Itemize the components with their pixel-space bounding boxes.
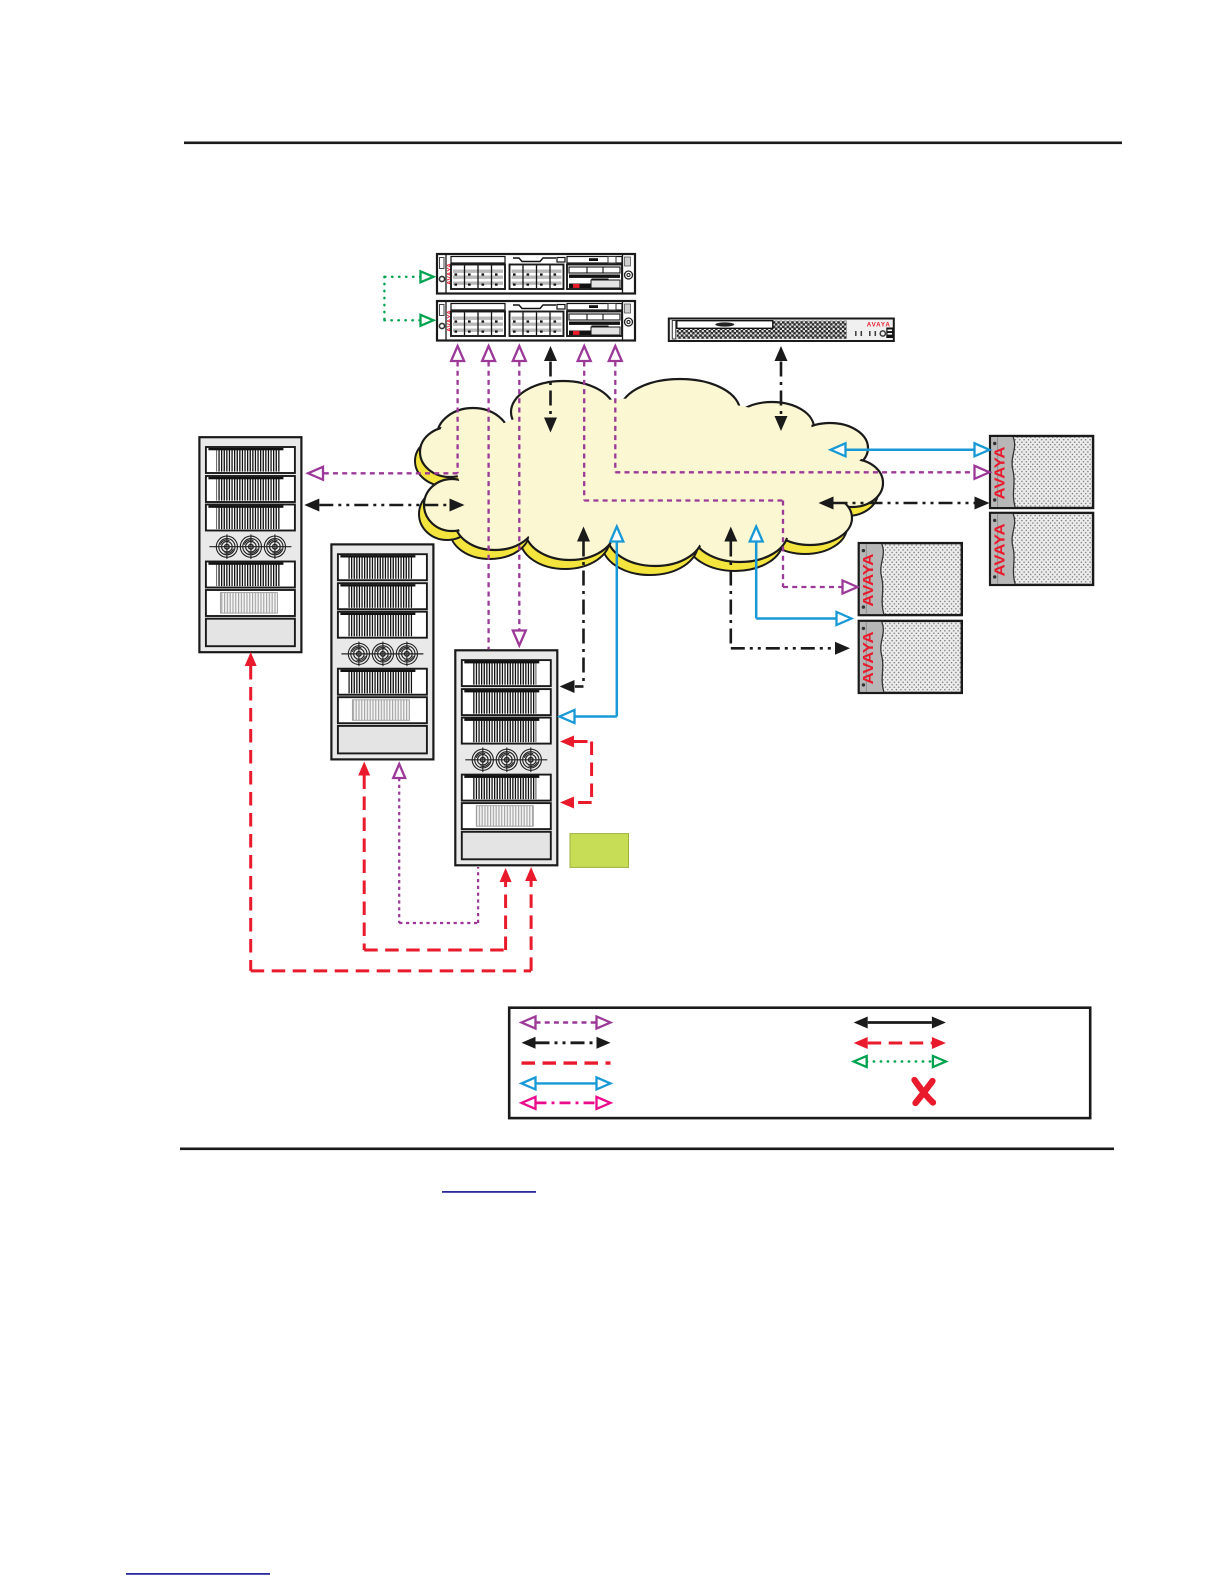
svg-text:AVAYA: AVAYA [861,553,877,607]
svg-text:AVAYA: AVAYA [861,631,877,685]
svg-text:AVAYA: AVAYA [992,446,1008,500]
svg-text:AVAYA: AVAYA [867,321,891,328]
svg-text:AVAYA: AVAYA [992,523,1008,577]
